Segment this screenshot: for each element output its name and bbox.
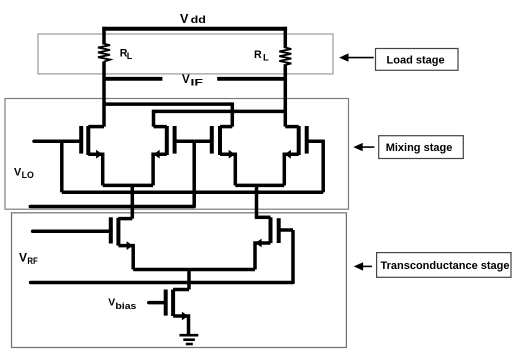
transconductance stage box <box>12 213 347 348</box>
node VIF label <box>182 73 203 89</box>
wire M6 gate drop to RF- <box>291 230 295 283</box>
svg-text:V: V <box>180 12 189 26</box>
svg-text:Transconductance stage: Transconductance stage <box>381 260 510 272</box>
wire left load top lead <box>102 27 106 45</box>
resistor RL (left) label <box>120 48 133 62</box>
svg-text:dd: dd <box>191 15 206 26</box>
arrow to load stage <box>339 53 374 61</box>
wire left pair tail down to M5 drain <box>131 185 135 218</box>
label box Mixing stage <box>379 136 464 159</box>
wire rail B (right VIF node to M2 drain) <box>154 110 286 114</box>
arrow to transconductance stage <box>354 262 372 270</box>
ground <box>180 335 199 344</box>
label box Load stage <box>376 49 459 71</box>
wire M4 gate drop <box>321 140 325 193</box>
wire VIF right stub <box>217 77 285 81</box>
wire LO+ drop from M1 gate <box>60 140 64 193</box>
node Vbias label <box>108 298 136 313</box>
node VLO label <box>14 167 34 181</box>
transistor M1 (mixing, outer left) <box>34 126 104 185</box>
svg-text:LO: LO <box>22 170 34 180</box>
svg-text:RF: RF <box>27 255 38 266</box>
wire M2/M3 gate drop to LO- <box>192 141 196 206</box>
label box Transconductance stage <box>377 253 511 278</box>
svg-text:V: V <box>19 250 27 264</box>
svg-text:IF: IF <box>191 78 204 89</box>
wire right load bottom lead down to M4 drain <box>284 64 288 126</box>
transistor M6 (transconductance, right) <box>255 217 293 269</box>
wire LO+ line (M1 gate to M4 gate) <box>62 191 323 195</box>
wire rail A (left VIF node to M3 drain) <box>104 102 232 106</box>
wire right load top lead <box>284 27 288 48</box>
arrow to mixing stage <box>353 143 374 151</box>
svg-text:V: V <box>182 73 190 86</box>
svg-text:bias: bias <box>115 301 136 312</box>
wire M3 drain riser <box>231 102 235 126</box>
wire left pair source bus <box>103 184 153 188</box>
svg-text:R: R <box>254 49 262 61</box>
svg-text:Mixing stage: Mixing stage <box>386 142 453 154</box>
resistor RL (left) <box>98 44 110 62</box>
wire tail down to M7 drain <box>187 270 191 290</box>
transistor M7 (bias) <box>149 290 189 335</box>
resistor RL (right) <box>279 48 291 65</box>
wire RF- line <box>31 281 293 285</box>
wire common source line M5/M6 <box>133 268 255 272</box>
load stage box <box>38 34 333 74</box>
wire right pair tail down <box>255 185 259 217</box>
svg-text:L: L <box>263 53 269 64</box>
node Vdd label <box>180 12 206 26</box>
wire left load bottom lead down to M1 drain <box>102 61 106 126</box>
wire right pair source bus <box>235 184 284 188</box>
wire Vdd rail <box>102 27 287 31</box>
wire right tail jog to M6 drain <box>255 216 271 220</box>
transistor M2 (mixing, inner left) <box>153 126 194 185</box>
wire VIF left stub <box>104 77 162 81</box>
svg-text:V: V <box>108 298 115 309</box>
wire LO- line <box>30 205 194 209</box>
transistor M4 (mixing, outer right) <box>284 126 323 185</box>
svg-text:Load stage: Load stage <box>387 55 445 67</box>
transistor M3 (mixing, inner right) <box>194 126 235 185</box>
mixing stage box <box>5 99 349 210</box>
node VRF label <box>19 250 38 266</box>
wire M2 drain riser <box>152 110 156 127</box>
transistor M5 (transconductance, left) <box>33 217 134 269</box>
svg-text:L: L <box>127 51 133 61</box>
resistor RL (right) label <box>254 49 269 64</box>
